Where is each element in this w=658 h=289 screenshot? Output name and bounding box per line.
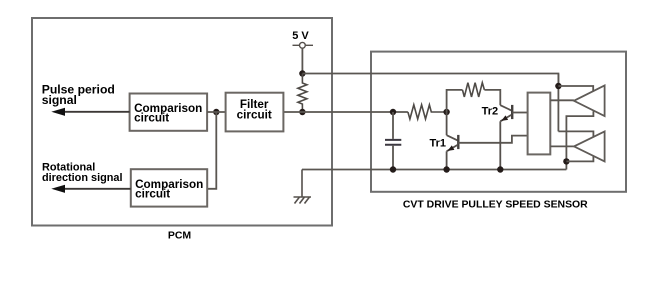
junction dot Tr1 emitter [443, 166, 449, 172]
IC block U1 [528, 93, 551, 155]
wire 5V terminal to node A [301, 48, 303, 73]
wire amp2 bottom tap [566, 156, 593, 161]
node D junction dot [443, 109, 449, 115]
svg-text:5 V: 5 V [292, 30, 309, 42]
wire filter to node B to capacitor node [284, 111, 408, 113]
svg-text:signal: signal [42, 93, 77, 107]
node C junction dot capacitor top [390, 109, 396, 115]
capacitor C1 [385, 112, 401, 170]
5V bus vertical [557, 74, 559, 132]
arrow rotational direction signal [58, 188, 131, 190]
5V terminal [293, 42, 314, 48]
svg-text:circuit: circuit [134, 112, 169, 125]
junction dot capacitor bottom [390, 166, 396, 172]
svg-text:PCM: PCM [168, 230, 192, 242]
transistor Tr1 [447, 112, 459, 170]
ground symbol [294, 170, 312, 204]
svg-text:circuit: circuit [237, 109, 272, 122]
wire amp1 bottom tap bracket [566, 111, 593, 169]
resistor R1 vertical [298, 74, 307, 113]
Tr2 base wire [512, 112, 527, 114]
wire amp2 top tap [558, 131, 593, 136]
wire box1 to filter [207, 111, 225, 113]
wire 5V rail [302, 74, 558, 87]
node B junction dot [299, 109, 305, 115]
Tr2 emitter arrow [501, 115, 508, 121]
node F junction dot [563, 158, 569, 164]
node A junction dot [299, 70, 305, 76]
Tr1 base wire with jog [458, 136, 527, 143]
node G junction dot [213, 109, 219, 115]
sensor box [371, 52, 626, 192]
svg-text:direction signal: direction signal [42, 172, 122, 184]
svg-text:circuit: circuit [135, 188, 170, 201]
wire node G down to box2 [207, 112, 216, 189]
PCM box [32, 18, 332, 226]
wire amp1 top tap [558, 86, 593, 91]
Tr1 emitter arrow [448, 145, 455, 151]
node E junction dot [555, 83, 561, 89]
comparison circuit box 2 [131, 169, 207, 206]
amp element 2 triangle [574, 131, 605, 161]
wire feedback up [447, 90, 463, 112]
svg-text:Tr1: Tr1 [429, 138, 446, 150]
arrow pulse period signal [58, 111, 130, 113]
svg-text:Tr2: Tr2 [482, 106, 499, 118]
wire U1 to amp1 apex [550, 99, 574, 101]
transistor Tr2 [500, 105, 512, 170]
resistor R3 feedback [463, 83, 485, 97]
comparison circuit box 1 [130, 94, 208, 131]
filter circuit box [226, 93, 284, 132]
wire R3 to Tr2 collector [484, 90, 500, 105]
svg-text:CVT DRIVE PULLEY SPEED SENSOR: CVT DRIVE PULLEY SPEED SENSOR [403, 199, 588, 210]
wire U1 to amp2 apex [550, 145, 574, 147]
amp element 1 triangle [574, 86, 605, 117]
ground rail wire [302, 169, 566, 171]
resistor R2 horizontal [408, 105, 447, 119]
junction dot Tr2 emitter [497, 166, 503, 172]
